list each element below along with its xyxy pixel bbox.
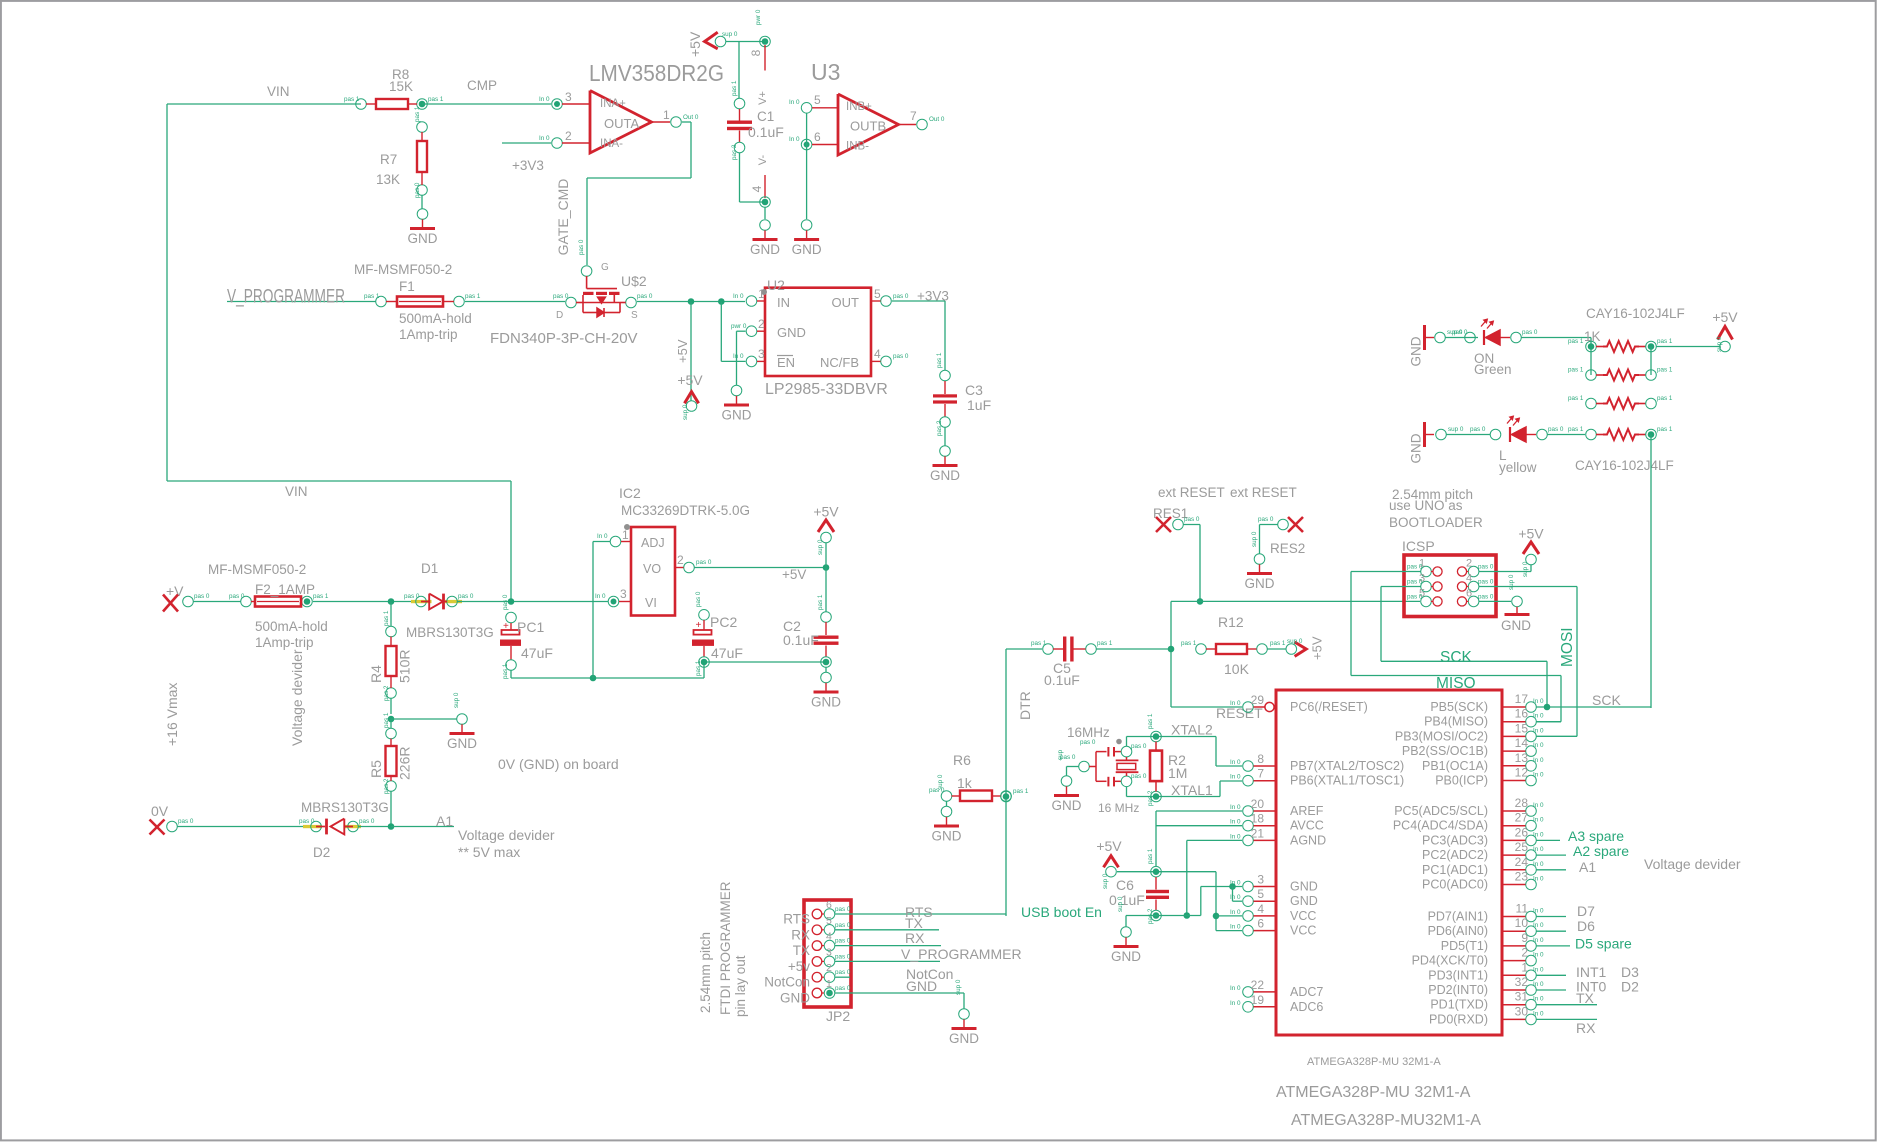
label C1 value — [748, 124, 784, 140]
svg-text:In 0: In 0 — [733, 353, 744, 360]
pin 13 PB1(OC1A) — [1422, 751, 1544, 773]
svg-text:pas 1: pas 1 — [1568, 338, 1584, 345]
svg-text:1: 1 — [622, 528, 629, 542]
label Voltage devider right — [1644, 856, 1741, 872]
svg-text:pas 1: pas 1 — [1147, 848, 1154, 864]
wire AREF-AVCC vertical — [1155, 811, 1157, 866]
JP2 pin row 1 — [783, 899, 851, 927]
svg-text:3: 3 — [565, 90, 572, 104]
pin 16 PB4(MISO) — [1424, 707, 1544, 729]
svg-text:pas 0: pas 0 — [835, 953, 851, 960]
wire R5 top — [390, 719, 392, 729]
svg-text:4: 4 — [1466, 573, 1472, 585]
svg-text:1: 1 — [758, 287, 765, 301]
wire A3 from pin26 — [1537, 839, 1561, 841]
wire DTR vertical — [1005, 649, 1007, 915]
svg-text:In 0: In 0 — [1533, 981, 1544, 988]
junction R4-R5 — [388, 716, 395, 723]
svg-text:pas 1: pas 1 — [1147, 713, 1154, 729]
net label SCK — [1440, 649, 1473, 666]
junction GND pins — [1229, 883, 1236, 890]
supply +5V below transistor — [677, 372, 703, 420]
svg-text:pas 1: pas 1 — [936, 352, 943, 368]
junction RES1 — [1197, 598, 1204, 605]
resistor R6 — [929, 787, 1011, 801]
net label D5 spare — [1575, 936, 1632, 952]
svg-text:D5 spare: D5 spare — [1575, 936, 1632, 952]
svg-text:pas 0: pas 0 — [1131, 743, 1147, 750]
supply +5V above C2 — [813, 504, 839, 556]
svg-text:In 0: In 0 — [789, 99, 800, 106]
svg-text:R5: R5 — [368, 760, 384, 778]
svg-text:INA+: INA+ — [600, 98, 626, 110]
wire A2 from pin25 — [1537, 854, 1567, 856]
label PC2 — [710, 614, 737, 630]
svg-text:ATMEGA328P-MU32M1-A: ATMEGA328P-MU32M1-A — [1291, 1112, 1481, 1129]
svg-text:0.1uF: 0.1uF — [1109, 892, 1145, 908]
svg-text:pas 0: pas 0 — [835, 906, 851, 913]
svg-text:AREF: AREF — [1290, 804, 1324, 818]
svg-text:GND: GND — [811, 695, 841, 710]
svg-text:4: 4 — [826, 931, 832, 943]
wire SCK from pin17 — [1537, 706, 1652, 708]
wire +5V branch down — [690, 302, 692, 401]
svg-text:ext RESET: ext RESET — [1230, 485, 1297, 500]
wire R4 to junction — [390, 698, 392, 714]
junction +5V branch — [688, 298, 695, 305]
net label +5V at VO — [782, 567, 806, 582]
svg-text:GND: GND — [408, 231, 438, 246]
svg-text:1M: 1M — [1168, 765, 1187, 781]
resistor R7 — [414, 106, 427, 198]
svg-text:In 0: In 0 — [1533, 727, 1544, 734]
svg-text:In 0: In 0 — [1533, 876, 1544, 883]
wire junction to R4 — [390, 602, 392, 627]
svg-text:XTAL2: XTAL2 — [1171, 722, 1213, 738]
svg-text:sup 0: sup 0 — [1251, 531, 1258, 547]
pin 7 PB6(XTAL1/TOSC1) — [1230, 767, 1404, 788]
net label +5V rotated — [675, 339, 690, 363]
ICSP pin row 1 — [1407, 558, 1494, 577]
wire PC2 to C2 rail — [704, 661, 826, 663]
label 13K — [376, 172, 400, 187]
svg-text:In 0: In 0 — [597, 533, 608, 540]
svg-text:+5V: +5V — [1096, 838, 1122, 854]
wire JP2 NotCon — [835, 976, 850, 978]
svg-text:V_PROGRAMMER: V_PROGRAMMER — [227, 286, 345, 308]
wire D6 from pin10 — [1537, 930, 1567, 932]
svg-text:4: 4 — [750, 185, 764, 192]
pin 1 U2 IN — [733, 287, 765, 306]
label ATMEGA small — [1307, 1056, 1441, 1068]
net label INT1 — [1576, 964, 1607, 980]
svg-text:pas 0: pas 0 — [1184, 516, 1200, 523]
svg-text:In 0: In 0 — [1533, 713, 1544, 720]
wire network right to +5V — [1656, 346, 1720, 348]
svg-text:R6: R6 — [953, 752, 971, 768]
svg-text:In 0: In 0 — [1533, 802, 1544, 809]
label FDN340P-3P-CH-20V — [490, 330, 638, 347]
error cross RES2 — [1288, 517, 1303, 532]
net label D6 — [1577, 918, 1595, 934]
svg-text:In 0: In 0 — [1230, 833, 1241, 840]
svg-text:Voltage devider: Voltage devider — [458, 827, 555, 843]
wire RESET vertical — [1170, 601, 1172, 707]
svg-text:In 0: In 0 — [1533, 742, 1544, 749]
svg-text:PB2(SS/OC1B): PB2(SS/OC1B) — [1402, 744, 1488, 758]
wire D7 from pin11 — [1537, 916, 1567, 918]
svg-text:1: 1 — [1521, 960, 1528, 974]
svg-text:PC5(ADC5/SCL): PC5(ADC5/SCL) — [1394, 804, 1488, 818]
label F2 rating — [255, 619, 328, 634]
svg-text:RX: RX — [905, 930, 925, 946]
svg-text:In 0: In 0 — [1230, 909, 1241, 916]
svg-text:TX: TX — [793, 943, 810, 958]
net label D7 — [1577, 903, 1595, 919]
label MF-MSMF050-2 F2 — [208, 562, 306, 577]
wire +V to F2 — [193, 601, 241, 603]
junction A1 — [388, 823, 395, 830]
label 15K — [389, 79, 413, 94]
ground green LED — [1409, 325, 1435, 367]
svg-text:use UNO as: use UNO as — [1389, 498, 1463, 513]
wire D2 to junction — [358, 826, 391, 828]
svg-text:F2_1AMP: F2_1AMP — [255, 582, 315, 597]
net label TX — [1576, 990, 1595, 1006]
net label 0V — [151, 803, 169, 819]
svg-text:GATE_CMD: GATE_CMD — [555, 179, 571, 256]
svg-text:pas 0: pas 0 — [637, 293, 653, 300]
label D — [556, 310, 563, 321]
svg-text:16 MHz: 16 MHz — [1098, 801, 1139, 815]
label D2 pin — [1621, 979, 1639, 995]
svg-text:In 0: In 0 — [1533, 817, 1544, 824]
pin 4 V- stub — [750, 175, 765, 198]
svg-text:U2: U2 — [767, 277, 785, 293]
svg-text:24: 24 — [1515, 855, 1529, 869]
svg-text:sup: sup — [1057, 749, 1064, 760]
label C5 — [1053, 660, 1071, 676]
svg-text:8: 8 — [749, 49, 763, 56]
net label TX jp2 — [905, 915, 924, 931]
svg-text:9: 9 — [1521, 931, 1528, 945]
pin 1 op-amp output — [652, 108, 699, 127]
svg-text:pas 1: pas 1 — [465, 293, 481, 300]
label R12 — [1218, 614, 1244, 630]
svg-text:GND: GND — [1290, 880, 1318, 894]
svg-text:pas 1: pas 1 — [695, 660, 702, 676]
wire VO to +5V — [695, 567, 827, 569]
svg-text:25: 25 — [1515, 840, 1529, 854]
wire F2 to D1 — [313, 601, 415, 603]
net label GND jp2 — [906, 978, 937, 994]
label U$2 — [621, 273, 647, 289]
wire MOSI from pin15 — [1537, 735, 1578, 737]
wire F1 to U$2 drain — [465, 301, 565, 303]
net label RTS — [905, 904, 933, 920]
svg-text:In 0: In 0 — [1230, 924, 1241, 931]
label Voltage devider — [289, 649, 305, 746]
ground below C1 — [750, 220, 780, 257]
svg-text:R4: R4 — [368, 665, 384, 683]
regulator U2 box — [765, 288, 871, 376]
svg-text:FTDI PROGRAMMER: FTDI PROGRAMMER — [718, 881, 733, 1015]
junction R6 DTR — [1001, 788, 1029, 802]
svg-text:G: G — [601, 262, 609, 273]
label ATMEGA medium 2 — [1291, 1112, 1481, 1129]
wire AVCC — [1156, 825, 1242, 827]
svg-text:R7: R7 — [380, 152, 397, 167]
JP2 pin row 5 — [764, 962, 851, 990]
svg-text:D7: D7 — [1577, 903, 1595, 919]
svg-text:226R: 226R — [397, 747, 413, 780]
svg-text:pas 0: pas 0 — [835, 922, 851, 929]
ground below R7 — [408, 209, 438, 246]
pin circle 0V — [167, 818, 194, 832]
pin 19 ADC6 — [1230, 993, 1323, 1014]
svg-text:10: 10 — [1515, 916, 1529, 930]
label CMP — [467, 78, 497, 93]
svg-text:In 0: In 0 — [1533, 846, 1544, 853]
net label A2 spare — [1573, 843, 1629, 859]
svg-text:In 0: In 0 — [1533, 908, 1544, 915]
svg-text:22: 22 — [1251, 978, 1265, 992]
svg-text:pas 0: pas 0 — [893, 353, 909, 360]
svg-text:Out 0: Out 0 — [683, 114, 699, 121]
supply +5V AVCC — [1096, 838, 1122, 889]
resistor R8 — [344, 96, 444, 109]
junction VCC pins — [1213, 913, 1220, 920]
pin 2 U2 GND — [731, 317, 765, 337]
pin 30 PD0(RXD) — [1429, 1004, 1544, 1026]
label ext RESET 2 — [1230, 485, 1297, 500]
IC ATMEGA328 box — [1276, 690, 1502, 1035]
wire pin4 to GND — [764, 207, 766, 219]
svg-text:PB3(MOSI/OC2): PB3(MOSI/OC2) — [1395, 729, 1488, 743]
label C1 — [757, 109, 774, 124]
svg-text:In 0: In 0 — [595, 593, 606, 600]
net label INT0 — [1576, 979, 1607, 995]
label ATMEGA medium — [1276, 1084, 1471, 1101]
svg-text:MC33269DTRK-5.0G: MC33269DTRK-5.0G — [621, 503, 750, 518]
wire R5 to A1 junction — [390, 791, 392, 827]
svg-text:TX: TX — [1576, 990, 1595, 1006]
svg-text:pas 0: pas 0 — [194, 593, 210, 600]
svg-text:+5V: +5V — [1310, 636, 1325, 660]
label FTDI PROGRAMMER — [718, 881, 733, 1015]
svg-text:pwr 0: pwr 0 — [755, 9, 762, 25]
label BOOTLOADER — [1389, 515, 1483, 530]
pin 7 op-amp B output — [899, 109, 945, 130]
svg-text:10K: 10K — [1224, 661, 1250, 677]
net label A1 divider — [436, 813, 453, 829]
wire AREF — [1156, 810, 1242, 812]
svg-text:In 0: In 0 — [1533, 996, 1544, 1003]
svg-text:In 0: In 0 — [1533, 922, 1544, 929]
svg-text:In 0: In 0 — [1533, 937, 1544, 944]
JP2 pin row 4 — [788, 946, 851, 974]
label C2 — [783, 618, 801, 634]
svg-text:In 0: In 0 — [1230, 985, 1241, 992]
wire D1 to IC2 — [457, 601, 608, 603]
svg-text:pas 1: pas 1 — [383, 610, 390, 626]
svg-text:GND: GND — [777, 325, 806, 340]
junction C5 R12 — [1168, 646, 1175, 653]
wire crystal gnd elbow — [1067, 767, 1080, 776]
svg-text:pas 2: pas 2 — [731, 144, 738, 160]
svg-text:3: 3 — [758, 347, 765, 361]
svg-text:26: 26 — [1515, 825, 1529, 839]
svg-text:V_PROGRAMMER: V_PROGRAMMER — [901, 946, 1022, 962]
net label +3V3 — [512, 158, 544, 173]
junction F2 out — [304, 598, 311, 605]
ground below C6 — [1111, 896, 1141, 964]
svg-text:PC1: PC1 — [517, 619, 544, 635]
svg-text:C3: C3 — [965, 382, 983, 398]
svg-text:GND: GND — [1501, 618, 1531, 633]
svg-text:AVCC: AVCC — [1290, 819, 1324, 833]
svg-text:+5V: +5V — [1712, 309, 1738, 325]
svg-text:pas 1: pas 1 — [1568, 395, 1584, 402]
svg-text:pas 1: pas 1 — [1657, 395, 1673, 402]
svg-text:pas 1: pas 1 — [817, 594, 824, 610]
svg-text:A3 spare: A3 spare — [1568, 828, 1624, 844]
net label +3V3 out — [917, 289, 949, 304]
svg-text:sup 0: sup 0 — [722, 31, 738, 38]
svg-text:INB+: INB+ — [846, 101, 872, 113]
wire R6 to GND — [946, 801, 948, 807]
svg-text:29: 29 — [1251, 693, 1265, 707]
svg-text:0.1uF: 0.1uF — [1044, 672, 1080, 688]
svg-text:pas 0: pas 0 — [1131, 773, 1147, 780]
svg-text:F1: F1 — [399, 279, 415, 294]
svg-text:23: 23 — [1515, 870, 1529, 884]
wire ICSP VCC — [1479, 565, 1531, 572]
svg-text:NotCon: NotCon — [764, 975, 810, 990]
svg-text:In 0: In 0 — [1533, 757, 1544, 764]
svg-text:PD0(RXD): PD0(RXD) — [1429, 1012, 1488, 1026]
net label +V — [166, 583, 184, 599]
wire +3V3 to pin2 — [502, 142, 551, 144]
label 510R — [397, 650, 413, 683]
svg-text:0V (GND) on board: 0V (GND) on board — [498, 756, 619, 772]
label C5 value — [1044, 672, 1080, 688]
label 1M — [1168, 765, 1187, 781]
svg-text:pwr 0: pwr 0 — [731, 323, 747, 330]
svg-text:12: 12 — [1515, 766, 1529, 780]
svg-text:MF-MSMF050-2: MF-MSMF050-2 — [354, 262, 452, 277]
junction R4 top — [388, 598, 395, 605]
label RES2 — [1270, 541, 1305, 556]
svg-text:D2: D2 — [313, 845, 330, 860]
svg-text:GND: GND — [1290, 894, 1318, 908]
label IC2 — [619, 485, 641, 501]
origin dot IC2 — [624, 524, 630, 530]
svg-text:pas 0: pas 0 — [229, 593, 245, 600]
svg-text:5: 5 — [874, 287, 881, 301]
svg-text:ext RESET: ext RESET — [1158, 485, 1225, 500]
label C6 — [1116, 877, 1134, 893]
wire +5V to pin8 — [726, 41, 765, 43]
net label XTAL2 — [1171, 722, 1213, 738]
wire rail up to PC2 — [703, 662, 705, 678]
svg-text:PD4(XCK/T0): PD4(XCK/T0) — [1412, 954, 1488, 968]
svg-text:GND: GND — [1409, 336, 1424, 366]
net label A1 — [1579, 859, 1596, 875]
svg-text:pas 1: pas 1 — [313, 593, 329, 600]
ICSP pin row 2 — [1407, 573, 1494, 592]
junction EN branch — [718, 298, 725, 305]
net label V_PROGRAMMER — [227, 286, 345, 308]
svg-text:PC6(/RESET): PC6(/RESET) — [1290, 700, 1368, 714]
svg-text:2: 2 — [565, 129, 572, 143]
svg-text:OUTA: OUTA — [604, 116, 639, 131]
svg-text:14: 14 — [1515, 736, 1529, 750]
svg-text:+16 Vmax: +16 Vmax — [164, 683, 180, 746]
wire up to +5V supply — [825, 543, 827, 568]
svg-text:LMV358DR2G: LMV358DR2G — [589, 60, 724, 86]
pin 1 PD3(INT1) — [1428, 960, 1544, 982]
label 2.54mm pitch — [1392, 487, 1473, 502]
label MBRS130T3G D2 — [301, 800, 389, 815]
wire RESET rail — [1171, 600, 1420, 602]
svg-text:A2 spare: A2 spare — [1573, 843, 1629, 859]
wire A1 from pin24 — [1537, 869, 1567, 871]
capacitor C5 — [1031, 637, 1113, 662]
svg-text:2.54mm pitch: 2.54mm pitch — [698, 932, 713, 1013]
net label RX — [1576, 1020, 1596, 1036]
label R2 — [1168, 752, 1186, 768]
ground below crystal — [1052, 749, 1082, 813]
svg-text:PD1(TXD): PD1(TXD) — [1430, 998, 1488, 1012]
svg-text:GND: GND — [930, 468, 960, 483]
wire RX from pin30 — [1537, 1018, 1598, 1020]
svg-text:PB5(SCK): PB5(SCK) — [1430, 700, 1488, 714]
header JP2 box — [804, 900, 851, 1007]
net label VIN 2 — [285, 484, 308, 499]
LED ON green — [1481, 319, 1538, 345]
regulator IC2 box — [631, 527, 675, 616]
label PC1 — [517, 619, 544, 635]
svg-text:pas 0: pas 0 — [1407, 593, 1423, 600]
header ICSP box — [1404, 555, 1496, 617]
label D1 — [421, 561, 438, 576]
svg-text:PC2(ADC2): PC2(ADC2) — [1422, 848, 1488, 862]
label 1K — [1584, 329, 1601, 344]
label Green — [1474, 362, 1512, 377]
svg-text:RX: RX — [1576, 1020, 1596, 1036]
svg-text:In 0: In 0 — [1230, 819, 1241, 826]
svg-text:pas 0: pas 0 — [1478, 579, 1494, 586]
svg-text:MBRS130T3G: MBRS130T3G — [301, 800, 389, 815]
svg-text:A1: A1 — [436, 813, 453, 829]
svg-text:VCC: VCC — [1290, 909, 1316, 923]
diode D1 — [404, 593, 474, 609]
label ON — [1474, 351, 1494, 366]
ground below C2 — [811, 672, 841, 709]
junction pin4 — [760, 197, 771, 208]
wire +3V3 down to C3 — [944, 301, 946, 370]
pin 10 PD6(AIN0) — [1428, 916, 1544, 938]
svg-text:RX: RX — [791, 927, 810, 942]
svg-text:In 0: In 0 — [1533, 1010, 1544, 1017]
svg-text:pas 2: pas 2 — [936, 420, 943, 436]
wire GND pin3 — [1201, 887, 1242, 916]
svg-text:pas 1: pas 1 — [364, 293, 380, 300]
svg-text:GND: GND — [780, 991, 810, 1006]
svg-text:pas 0: pas 0 — [299, 818, 315, 825]
ground below C3 — [930, 446, 960, 483]
